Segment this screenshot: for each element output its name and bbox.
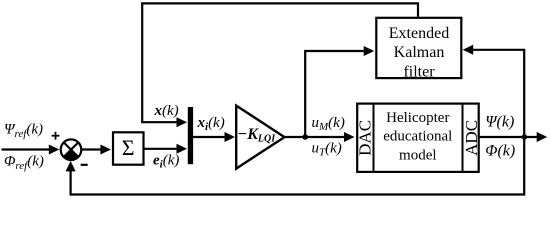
svg-text:Extended: Extended (389, 25, 449, 42)
svg-text:Φref(k): Φref(k) (4, 154, 44, 173)
label minus sign (81, 164, 88, 166)
svg-text:Helicopter: Helicopter (386, 110, 449, 126)
wire reference input into summing junction (2, 145, 60, 155)
block helicopter educational model (357, 103, 479, 174)
svg-text:Σ: Σ (122, 135, 135, 160)
svg-text:uM(k): uM(k) (312, 115, 345, 133)
svg-text:Kalman: Kalman (394, 44, 445, 61)
node junction y (522, 134, 528, 140)
wire u feedback up to Kalman filter left input (305, 46, 374, 137)
mux bar (188, 107, 193, 164)
svg-text:ADC: ADC (462, 120, 481, 156)
wire output feedback down to summing junction (66, 137, 525, 195)
svg-text:x(k): x(k) (154, 103, 179, 119)
wire x(k) into state mux (141, 117, 187, 127)
wire e_i(k) from integrator to mux (145, 144, 188, 154)
svg-text:Φ(k): Φ(k) (485, 143, 515, 160)
wire summing junction to integrator block (81, 145, 111, 155)
wire y feedback up to Kalman filter right input (463, 45, 525, 137)
wire gain output u to helicopter model (284, 132, 355, 142)
svg-text:xi(k): xi(k) (197, 115, 225, 133)
svg-text:ei(k): ei(k) (153, 152, 179, 170)
node junction u (302, 134, 308, 140)
svg-text:Ψref(k): Ψref(k) (4, 121, 43, 140)
svg-text:uT(k): uT(k) (312, 141, 342, 159)
block integrator Sigma (113, 132, 144, 164)
svg-text:DAC: DAC (356, 120, 375, 156)
wire top feedback from Kalman filter output to x(k) (142, 3, 418, 122)
svg-text:filter: filter (403, 63, 435, 80)
gain triangle K_LQI (236, 106, 284, 169)
summing junction (61, 139, 82, 160)
svg-text:Ψ(k): Ψ(k) (485, 114, 514, 131)
label plus sign (52, 132, 60, 140)
svg-text:educational: educational (383, 129, 452, 145)
block Extended Kalman filter (376, 18, 461, 81)
wire output y from helicopter model (480, 132, 548, 142)
wire x_i(k) from mux to gain (193, 132, 235, 142)
svg-text:model: model (399, 147, 437, 163)
